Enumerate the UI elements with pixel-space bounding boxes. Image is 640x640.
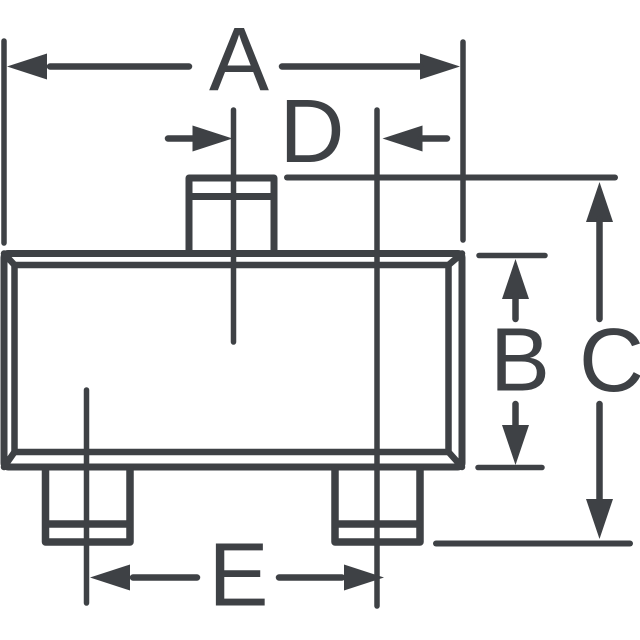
dimension C bottom arrow <box>586 404 613 539</box>
dimension B bottom arrow <box>502 404 529 465</box>
dimension A arrow right <box>282 54 460 80</box>
body corner bevel bottom-right <box>449 452 463 467</box>
bottom-right lead inner line <box>336 520 420 528</box>
body corner bevel top-left <box>4 254 15 266</box>
dimension E arrow right <box>279 565 384 591</box>
top tab lead inner line <box>189 193 274 200</box>
bottom-left lead outline <box>46 467 131 542</box>
dimension C top arrow <box>586 182 613 319</box>
dimension D arrow left <box>168 126 233 152</box>
svg-text:E: E <box>208 526 268 626</box>
package body outer outline <box>4 254 462 468</box>
dimension B top arrow <box>502 259 529 319</box>
dimension B bottom tick bar <box>478 465 542 471</box>
package body inner outline <box>15 265 449 452</box>
svg-text:B: B <box>490 311 550 411</box>
bottom-right lead outline <box>335 467 420 542</box>
dimension E arrow left <box>90 565 197 591</box>
svg-text:D: D <box>280 82 345 182</box>
bottom-left lead inner line <box>46 520 130 528</box>
top tab lead outline <box>189 178 274 254</box>
dimension D arrow right <box>383 126 448 152</box>
dimension C bottom reference line <box>436 541 630 547</box>
body corner bevel top-right <box>449 254 463 266</box>
extension line right (body right edge / A) <box>460 42 466 240</box>
right lead center line (D / E) <box>374 110 380 606</box>
dimension C top reference line <box>287 175 615 181</box>
extension line left (body left edge / A) <box>1 41 7 243</box>
svg-text:C: C <box>579 311 640 411</box>
svg-text:A: A <box>209 10 269 110</box>
left lead center line (E) <box>84 390 90 603</box>
dimension A arrow left <box>7 54 189 80</box>
dimension B top tick bar <box>479 253 545 259</box>
center line of top tab (D) <box>231 110 237 342</box>
body corner bevel bottom-left <box>4 452 15 467</box>
